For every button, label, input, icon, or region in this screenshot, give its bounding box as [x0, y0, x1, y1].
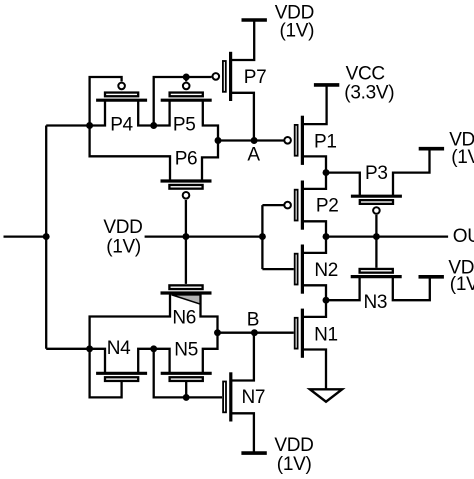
svg-text:A: A — [247, 145, 260, 166]
svg-text:VDD: VDD — [103, 217, 142, 238]
transistor N5 — [161, 373, 212, 381]
power VDD (1V) right-top rail — [419, 147, 444, 151]
wire mid rail to N6 gate — [185, 237, 187, 284]
junction N4/N5 mid — [150, 345, 157, 352]
svg-text:N2: N2 — [314, 260, 338, 281]
svg-text:N4: N4 — [107, 338, 131, 359]
wire P4 gate diode loop — [90, 77, 122, 126]
svg-text:P1: P1 — [314, 132, 337, 153]
wire N1 source to ground — [302, 350, 326, 390]
wire P2 drain to OUT node — [302, 221, 326, 236]
power VCC (3.3V) rail — [314, 83, 339, 87]
svg-text:(1V): (1V) — [280, 21, 315, 42]
svg-text:P3: P3 — [365, 163, 388, 184]
wire N7 drain to node B — [231, 333, 254, 381]
transistor N2 — [295, 245, 303, 294]
power VDD (1V) right-bottom rail — [419, 275, 444, 279]
wire N3 gate from OUT — [375, 237, 377, 268]
transistor P5 — [161, 83, 212, 101]
wire N5 drain (right) riser to node B — [203, 333, 218, 374]
wire N6 source (left) to N4-left column — [90, 293, 170, 349]
junction node A — [251, 137, 258, 144]
svg-text:P5: P5 — [173, 114, 196, 135]
wire left rail bottom to N4-left — [46, 348, 89, 350]
svg-text:(1V): (1V) — [451, 147, 474, 168]
svg-text:(1V): (1V) — [450, 274, 474, 295]
wire P5 drain (right) to node A — [203, 100, 218, 140]
wire N2 source to N1 node — [302, 285, 326, 300]
wire N1 drain — [302, 300, 326, 317]
junction N4-left — [86, 345, 93, 352]
wire N4 gate diode loop — [90, 349, 122, 398]
wire P5 gate diode loop — [154, 77, 187, 126]
transistor N7 — [223, 372, 231, 421]
wire P4 source (left) to node — [90, 100, 105, 125]
wire P7 drain to node A — [231, 93, 254, 141]
transistor N4 — [96, 373, 147, 381]
svg-text:(1V): (1V) — [277, 454, 312, 474]
svg-text:(3.3V): (3.3V) — [344, 83, 394, 104]
svg-text:P7: P7 — [244, 67, 267, 88]
junction P4/P5 mid — [150, 122, 157, 129]
power VDD (1V) top rail — [242, 18, 267, 22]
wire gate bus to P2 gate — [262, 204, 284, 206]
wire VDD-top stem to P7 source — [231, 20, 255, 60]
svg-text:N1: N1 — [314, 325, 338, 346]
svg-text:OUT: OUT — [453, 226, 474, 247]
wire N2 drain from OUT node — [302, 237, 326, 253]
junction P1-drain / P3 — [323, 169, 330, 176]
junction node B — [251, 329, 258, 336]
junction node-A left — [215, 137, 222, 144]
wire node A to P1 gate — [218, 139, 284, 141]
wire P4 drain (right) to mid node — [138, 100, 154, 125]
transistor N6 (native, thick-oxide mark) — [161, 285, 212, 293]
svg-text:(1V): (1V) — [106, 237, 141, 258]
transistor N1 — [295, 309, 303, 358]
wire P6 gate to VDD mid node — [185, 200, 187, 237]
ground — [310, 389, 342, 401]
junction OUT node — [323, 233, 330, 240]
wire P6 drain (right) from node A — [202, 141, 218, 182]
svg-text:N3: N3 — [364, 292, 388, 313]
transistor P4 — [96, 83, 147, 101]
wire OUT net — [326, 235, 448, 237]
svg-text:N7: N7 — [242, 387, 266, 408]
wire P6 source (left) from P4-left node — [90, 126, 170, 182]
junction P5 gate — [183, 74, 190, 81]
wire VCC stem to P1 source — [302, 85, 326, 124]
junction input/left-rail — [43, 233, 50, 240]
wire P5 gate to P7 gate — [186, 76, 211, 78]
svg-text:P4: P4 — [110, 114, 133, 135]
wire gate bus to N2 gate — [262, 268, 293, 270]
wire N7 source to VDD bottom — [231, 413, 254, 453]
wire N3 drain (right) to VDD — [393, 277, 430, 301]
wire N4 drain (right) — [138, 349, 154, 374]
svg-text:P2: P2 — [316, 196, 339, 217]
wire N3 source (left) to N1 node — [326, 277, 360, 301]
junction N5 gate / N7 gate wire — [183, 394, 190, 401]
wire P3 gate to OUT — [375, 215, 377, 237]
wire P1 drain to P3/P2 node — [302, 156, 326, 189]
svg-text:B: B — [247, 309, 259, 330]
svg-text:P6: P6 — [175, 149, 198, 170]
svg-text:VCC: VCC — [346, 64, 385, 85]
transistor P6 — [161, 181, 212, 199]
junction gate bus — [259, 233, 266, 240]
native-device triangle of N6 — [172, 295, 201, 304]
wire P5 source (left) — [154, 100, 170, 125]
transistor P1 — [284, 116, 302, 165]
transistor N3 — [351, 269, 402, 277]
wire left rail top to P4-left — [46, 124, 89, 126]
wire N5 gate drop — [185, 382, 187, 397]
wire input terminal — [4, 235, 47, 237]
junction P3/N3 gates on OUT — [373, 233, 380, 240]
junction node-B left — [214, 329, 221, 336]
svg-text:N5: N5 — [174, 340, 198, 361]
junction N2/N1/N3 node — [323, 297, 330, 304]
wire left rail — [45, 126, 47, 349]
power VDD (1V) bottom rail — [241, 451, 266, 455]
transistor P3 — [351, 196, 402, 214]
transistor P7 — [213, 52, 231, 101]
transistor P2 — [284, 181, 302, 230]
wire gate bus vertical — [261, 205, 263, 269]
wire node B to N1 gate — [218, 332, 294, 334]
wire N6 drain (right) to node B — [201, 293, 218, 333]
svg-text:N6: N6 — [172, 307, 196, 328]
wire N4/N5-mid to N7 gate — [154, 349, 222, 398]
junction P4-left — [86, 122, 93, 129]
wire P3 drain (right) to VDD — [393, 149, 430, 197]
junction VDD-mid rail — [182, 233, 189, 240]
wire N4 source (left) — [90, 349, 105, 374]
wire VDD mid to gate bus — [145, 235, 263, 237]
wire P3 source (left) to P1-drain node — [326, 173, 360, 197]
wire N5 source (left) — [154, 349, 170, 374]
